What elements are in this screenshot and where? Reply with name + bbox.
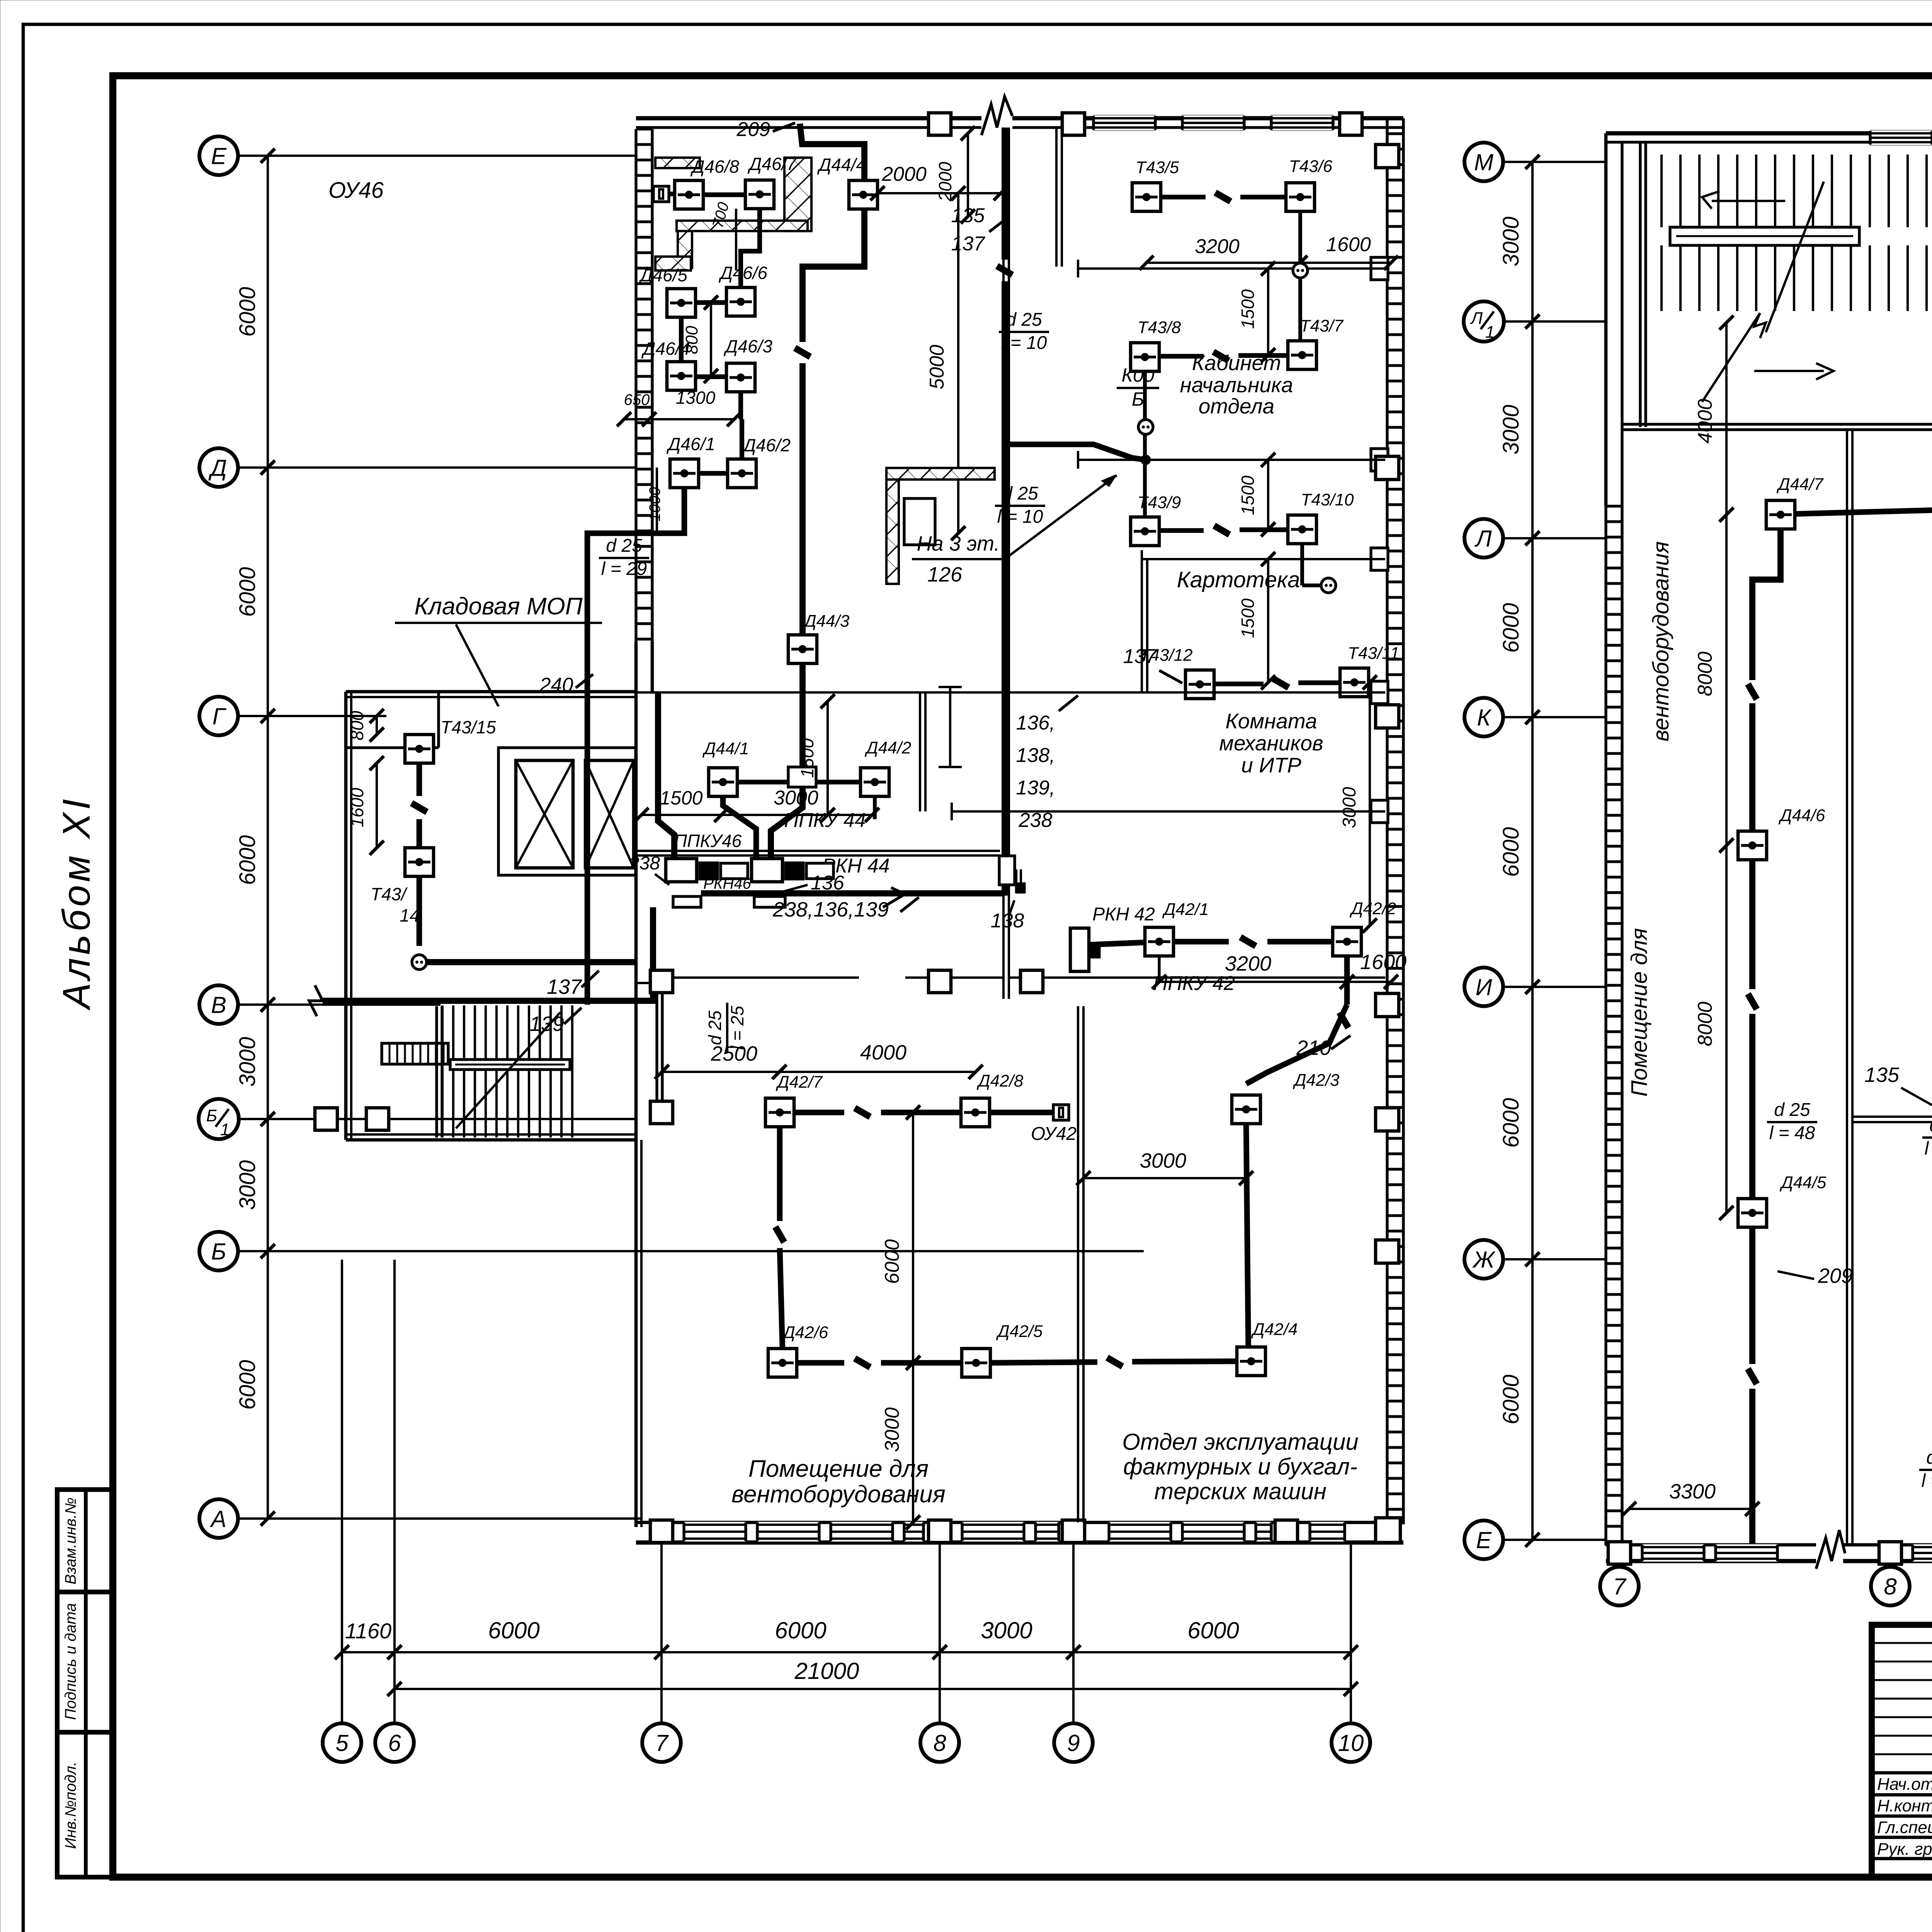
svg-text:Помещение для: Помещение для bbox=[1627, 928, 1652, 1097]
svg-text:3000: 3000 bbox=[235, 1160, 260, 1210]
wire Д46/5 down bbox=[679, 317, 684, 362]
svg-text:Д44/1: Д44/1 bbox=[702, 739, 749, 758]
svg-text:1600: 1600 bbox=[1360, 951, 1406, 974]
annex outer walls bbox=[346, 690, 636, 694]
left plan bottom wall windows bbox=[684, 1522, 746, 1542]
left plan bottom wall bbox=[636, 1521, 1403, 1524]
svg-text:Комната: Комната bbox=[1225, 709, 1317, 733]
dimension 1600 annex bbox=[370, 756, 384, 855]
svg-text:10: 10 bbox=[1338, 1730, 1364, 1756]
corridor wall vertical bbox=[1002, 128, 1005, 425]
svg-text:138: 138 bbox=[991, 910, 1024, 932]
detector Д42/3 bbox=[1232, 1095, 1260, 1124]
left plan grid line Б/1 bbox=[239, 1118, 638, 1120]
svg-text:6000: 6000 bbox=[1498, 1374, 1524, 1424]
left plan grid line Б bbox=[238, 1250, 1144, 1252]
detector Д42/5 bbox=[962, 1349, 990, 1377]
Картотека left wall bbox=[1141, 559, 1143, 692]
svg-text:3000: 3000 bbox=[981, 1617, 1032, 1643]
svg-text:137: 137 bbox=[547, 975, 582, 998]
svg-text:Д44/2: Д44/2 bbox=[864, 738, 912, 757]
detector Т43/10 bbox=[1288, 515, 1316, 544]
left plan grid line E bbox=[238, 155, 636, 157]
junction КОО Б bbox=[1117, 364, 1159, 410]
svg-text:фактурных и бухгал-: фактурных и бухгал- bbox=[1123, 1454, 1357, 1480]
left plan right wall columns bbox=[1376, 145, 1399, 168]
wire Д46/5 Д46/6 bbox=[696, 300, 726, 305]
svg-text:2000: 2000 bbox=[881, 163, 927, 185]
svg-text:Л: Л bbox=[1470, 309, 1483, 328]
svg-text:7: 7 bbox=[655, 1730, 669, 1756]
frac d25 l20 bbox=[1919, 1447, 1932, 1491]
svg-text:Д42/6: Д42/6 bbox=[781, 1323, 828, 1342]
svg-text:d 25: d 25 bbox=[1929, 1115, 1932, 1136]
dimension 4000 8000 8000 bbox=[1719, 316, 1734, 522]
wire Т43/8 down bbox=[1143, 371, 1147, 420]
svg-text:137: 137 bbox=[1123, 645, 1158, 668]
right plan left wall upper bbox=[1604, 133, 1608, 506]
dimension 3300 bbox=[1622, 1502, 1760, 1516]
svg-text:Л: Л bbox=[1474, 526, 1492, 552]
detector Т43/8 bbox=[1131, 343, 1159, 371]
right plan left window wall bbox=[1606, 506, 1622, 1546]
detector Д46/2 bbox=[728, 459, 756, 488]
svg-text:3000: 3000 bbox=[235, 1037, 260, 1087]
svg-text:6: 6 bbox=[388, 1730, 401, 1756]
left plan grid line Д bbox=[238, 466, 636, 469]
svg-text:Д46/5: Д46/5 bbox=[638, 265, 687, 285]
left plan top wall break bbox=[981, 97, 1012, 135]
svg-text:3000: 3000 bbox=[1339, 787, 1360, 828]
wire Д46/4 Д46/3 bbox=[696, 374, 726, 379]
svg-text:Ж: Ж bbox=[1472, 1247, 1495, 1273]
svg-text:1500: 1500 bbox=[1238, 289, 1258, 329]
svg-text:РКН 42: РКН 42 bbox=[1092, 904, 1155, 925]
svg-text:l = 29: l = 29 bbox=[601, 559, 647, 579]
svg-text:3000: 3000 bbox=[1498, 405, 1524, 454]
svg-text:и ИТР: и ИТР bbox=[1241, 753, 1301, 777]
svg-text:Альбом XI: Альбом XI bbox=[55, 796, 98, 1010]
detector Д42/6 bbox=[768, 1349, 797, 1377]
left plan grid line Г bbox=[238, 715, 386, 717]
svg-text:1300: 1300 bbox=[676, 388, 716, 408]
svg-text:РКН46: РКН46 bbox=[703, 875, 751, 892]
svg-text:6000: 6000 bbox=[775, 1617, 826, 1643]
wire Т43/5 Т43/6 bbox=[1161, 195, 1206, 199]
svg-text:209: 209 bbox=[736, 118, 770, 141]
detector Д44/3 bbox=[788, 635, 817, 663]
frac d25 l29 bbox=[599, 536, 649, 579]
svg-text:Взам.инв.№: Взам.инв.№ bbox=[62, 1497, 79, 1584]
dimension 1500 mech bbox=[1261, 552, 1276, 690]
detector Т43/12 bbox=[1185, 670, 1214, 699]
wire Т43/6 down telephone bbox=[1298, 211, 1302, 263]
left plan grid line В bbox=[238, 1003, 440, 1006]
svg-text:3000: 3000 bbox=[1140, 1149, 1186, 1172]
svg-text:l = 25: l = 25 bbox=[727, 1006, 747, 1050]
wire Д44/5 down bbox=[1749, 1227, 1755, 1364]
svg-text:5000: 5000 bbox=[926, 345, 948, 389]
svg-text:Д46/3: Д46/3 bbox=[723, 336, 772, 356]
svg-text:Кладовая МОП: Кладовая МОП bbox=[414, 593, 582, 620]
svg-text:6000: 6000 bbox=[488, 1617, 539, 1643]
svg-text:4000: 4000 bbox=[860, 1041, 906, 1064]
svg-text:Е: Е bbox=[211, 143, 227, 169]
left margin stamp table bbox=[57, 1490, 112, 1877]
left plan column bubbles bbox=[323, 1723, 361, 1762]
svg-text:d 25: d 25 bbox=[1002, 483, 1038, 504]
wire Д44/1 down bbox=[723, 796, 756, 859]
svg-text:На 3 эт.: На 3 эт. bbox=[917, 532, 1000, 555]
detector Т43/15 bbox=[405, 735, 434, 763]
wire Д44/2 stub bbox=[873, 796, 877, 819]
svg-text:вентоборудования: вентоборудования bbox=[1648, 541, 1673, 742]
partition механиков top bbox=[636, 691, 1385, 694]
svg-text:138,: 138, bbox=[1016, 744, 1055, 767]
right plan grid stub Ж bbox=[1503, 1258, 1606, 1260]
svg-text:Д42/8: Д42/8 bbox=[976, 1071, 1024, 1090]
svg-text:l = 10: l = 10 bbox=[1001, 333, 1047, 353]
elevator shafts bbox=[498, 748, 636, 875]
detector Д46/5 bbox=[667, 289, 696, 317]
wire Т43/8 Т43/7 bbox=[1159, 354, 1204, 359]
annex storeroom partition bbox=[437, 692, 440, 748]
detector Д42/8 bbox=[961, 1098, 990, 1127]
right plan bottom wall windows bbox=[1642, 1544, 1704, 1562]
svg-text:Д46/2: Д46/2 bbox=[742, 435, 791, 455]
dimension 2000 room bbox=[961, 126, 975, 224]
svg-text:Кабинет: Кабинет bbox=[1192, 351, 1281, 375]
svg-text:Д44/5: Д44/5 bbox=[1779, 1173, 1827, 1192]
partition Картотека bbox=[1142, 558, 1385, 560]
svg-text:Д46/8: Д46/8 bbox=[690, 156, 739, 177]
wire Д42/2 down bbox=[1344, 956, 1350, 1005]
detector Д44/6 bbox=[1738, 831, 1767, 860]
wire trunk 238 136 139 bbox=[323, 907, 653, 1001]
wire Д42/7 Д42/8 ОУ42 bbox=[794, 1110, 844, 1116]
svg-text:l = 48: l = 48 bbox=[1769, 1123, 1815, 1143]
svg-text:Помещение для: Помещение для bbox=[748, 1456, 929, 1482]
svg-text:Д42/3: Д42/3 bbox=[1293, 1071, 1340, 1090]
detector Д46/8 bbox=[675, 180, 703, 209]
stair to 3rd floor hatch bbox=[886, 468, 995, 480]
left plan right window wall bbox=[1387, 118, 1403, 1524]
svg-text:Инв.№подл.: Инв.№подл. bbox=[62, 1762, 79, 1849]
svg-text:Гл.спец.: Гл.спец. bbox=[1877, 1818, 1932, 1837]
telephone socket Картотека bbox=[1321, 578, 1336, 593]
svg-text:6000: 6000 bbox=[235, 1360, 260, 1410]
stairwell left wall bbox=[435, 1006, 438, 1138]
detector Д42/7 bbox=[765, 1098, 794, 1127]
svg-text:Д46/1: Д46/1 bbox=[666, 434, 715, 454]
dimension 5000 bbox=[951, 186, 966, 541]
annex grate bbox=[382, 1043, 448, 1064]
svg-text:Т43/15: Т43/15 bbox=[440, 717, 496, 737]
right plan grid stub Л/1 bbox=[1503, 320, 1606, 323]
svg-text:6000: 6000 bbox=[1498, 1098, 1524, 1148]
wire pair 136 to riser bbox=[636, 850, 1000, 852]
svg-text:Т43/9: Т43/9 bbox=[1138, 493, 1181, 512]
detector Т43/14 bbox=[405, 848, 434, 876]
wire Д42/6 Д42/5 Д42/4 bbox=[797, 1360, 844, 1366]
svg-text:Г: Г bbox=[213, 704, 227, 730]
svg-text:6000: 6000 bbox=[881, 1239, 903, 1284]
grid bubble М right plan bbox=[1464, 143, 1503, 181]
svg-text:терских машин: терских машин bbox=[1154, 1478, 1327, 1504]
grid bubble Е right plan bbox=[1464, 1520, 1503, 1559]
detector Т43/5 bbox=[1132, 183, 1161, 211]
svg-text:ППКУ46: ППКУ46 bbox=[674, 831, 742, 851]
svg-text:Б: Б bbox=[1132, 388, 1145, 410]
svg-text:И: И bbox=[1476, 975, 1492, 1000]
svg-text:126: 126 bbox=[927, 563, 963, 586]
detector Д42/1 bbox=[1145, 927, 1173, 956]
detector Д46/6 bbox=[726, 287, 755, 316]
grid bubble И right plan bbox=[1464, 968, 1503, 1006]
svg-text:3300: 3300 bbox=[1669, 1480, 1716, 1503]
right plan bottom wall columns bbox=[1608, 1542, 1631, 1564]
svg-text:8000: 8000 bbox=[1694, 1002, 1716, 1046]
svg-text:3000: 3000 bbox=[774, 787, 818, 809]
svg-text:136,: 136, bbox=[1016, 712, 1055, 734]
svg-text:800: 800 bbox=[347, 711, 367, 740]
wire Д46 top row bbox=[669, 192, 675, 196]
dimension 3200 1600 room1 bbox=[1139, 256, 1308, 270]
svg-text:8: 8 bbox=[1884, 1574, 1897, 1600]
svg-text:Д42/4: Д42/4 bbox=[1251, 1320, 1298, 1339]
svg-text:вентоборудования: вентоборудования bbox=[731, 1481, 946, 1508]
svg-text:d 25: d 25 bbox=[1926, 1447, 1932, 1468]
detector Д44/1 bbox=[709, 768, 737, 796]
hall divider wall bbox=[1077, 1006, 1079, 1522]
dimension 3200 1600 d42 bbox=[1152, 975, 1354, 989]
svg-text:Нач.отд.: Нач.отд. bbox=[1877, 1775, 1932, 1794]
grid bubble Л right plan bbox=[1464, 519, 1503, 558]
detector Т43/7 bbox=[1288, 341, 1316, 369]
upper hall partition vertical bbox=[919, 692, 921, 811]
svg-text:Д: Д bbox=[208, 455, 227, 481]
svg-text:Т43/6: Т43/6 bbox=[1289, 157, 1333, 176]
column at 7/Б1 bbox=[650, 1101, 673, 1124]
corridor wall right plan bbox=[1846, 430, 1848, 1545]
right plan grid stub Л bbox=[1503, 537, 1606, 539]
wire Д46/6 to Д46/7 bbox=[741, 209, 760, 287]
svg-text:1500: 1500 bbox=[1238, 475, 1258, 515]
svg-text:6000: 6000 bbox=[235, 835, 260, 885]
left plan column stems bbox=[341, 1260, 343, 1723]
wire Д44/1 Д44/2 bbox=[737, 780, 788, 784]
hatched wall top-left bbox=[655, 158, 700, 168]
wire Д46/1 down to trunk bbox=[587, 488, 684, 1005]
grid bubble А left plan bbox=[199, 1499, 238, 1538]
frac d25 l10 lower bbox=[995, 483, 1045, 527]
svg-text:Картотека: Картотека bbox=[1177, 567, 1300, 592]
svg-text:5: 5 bbox=[335, 1730, 349, 1756]
device ППКУ44 box bbox=[788, 767, 816, 787]
wire Д44/3 down bbox=[771, 663, 803, 859]
svg-text:4000: 4000 bbox=[1694, 399, 1716, 444]
svg-text:Д44/7: Д44/7 bbox=[1776, 475, 1824, 494]
svg-text:d 25: d 25 bbox=[1774, 1100, 1810, 1120]
socket ОУ46 bbox=[653, 186, 669, 202]
detector Д46/7 bbox=[745, 180, 774, 209]
wire Д42/7 down bbox=[777, 1127, 783, 1221]
svg-text:отдела: отдела bbox=[1199, 394, 1275, 418]
svg-text:21000: 21000 bbox=[794, 1658, 859, 1684]
svg-text:начальника: начальника bbox=[1180, 373, 1293, 397]
svg-text:Н.контр.: Н.контр. bbox=[1877, 1796, 1932, 1815]
svg-text:209: 209 bbox=[1818, 1264, 1853, 1287]
left plan left wall lower bbox=[634, 641, 638, 1140]
dimension 1500 room1 bbox=[1261, 262, 1276, 362]
svg-text:механиков: механиков bbox=[1219, 731, 1323, 755]
svg-text:Т43/5: Т43/5 bbox=[1136, 158, 1179, 177]
room wall vertical top bbox=[1055, 128, 1058, 267]
svg-text:238,136,139: 238,136,139 bbox=[772, 898, 889, 921]
right plan grid stub К bbox=[1503, 716, 1606, 718]
wire ППКУ42 Д42/1 Д42/2 bbox=[1089, 942, 1145, 945]
svg-text:1600: 1600 bbox=[347, 787, 367, 827]
frac d25 l48 bbox=[1767, 1100, 1817, 1143]
dimension 1500 vertical hall bbox=[821, 694, 835, 822]
svg-text:М: М bbox=[1474, 150, 1493, 175]
wire Д46/3 down bbox=[738, 392, 743, 419]
device ППКУ42 bbox=[1070, 928, 1089, 971]
detector Д44/4 bbox=[849, 180, 878, 209]
grid bubble Ж right plan bbox=[1464, 1240, 1503, 1279]
svg-text:1500: 1500 bbox=[660, 787, 702, 809]
svg-text:9: 9 bbox=[1067, 1730, 1080, 1756]
stairwell right wall bbox=[655, 981, 658, 1117]
svg-text:d 25: d 25 bbox=[606, 536, 642, 556]
left plan bottom wall columns bbox=[650, 1520, 673, 1543]
dimension 3000 hall bbox=[1077, 1171, 1253, 1185]
dimension 800 cluster bbox=[704, 296, 718, 383]
svg-text:Д46/7: Д46/7 bbox=[747, 154, 797, 174]
svg-text:Т43/7: Т43/7 bbox=[1300, 316, 1344, 335]
svg-text:Т43/: Т43/ bbox=[371, 884, 408, 904]
svg-text:Д44/6: Д44/6 bbox=[1778, 806, 1825, 825]
left plan lower-left wall bbox=[634, 1140, 638, 1527]
svg-text:Т43/10: Т43/10 bbox=[1301, 490, 1354, 509]
left plan overall dimension 21000 bbox=[388, 1682, 1358, 1696]
svg-text:137: 137 bbox=[951, 233, 986, 255]
right plan column stems bbox=[1618, 1561, 1621, 1567]
partition stub upper hall bbox=[949, 687, 951, 767]
svg-text:l = 20: l = 20 bbox=[1922, 1471, 1932, 1491]
right plan top wall windows bbox=[1870, 130, 1932, 145]
row В corridor wall bbox=[674, 976, 859, 979]
svg-text:l = 50: l = 50 bbox=[1925, 1138, 1932, 1159]
wire into ППКУ46 assembly bbox=[658, 694, 674, 859]
svg-text:1: 1 bbox=[220, 1120, 230, 1139]
svg-text:7: 7 bbox=[1613, 1574, 1627, 1600]
svg-text:135: 135 bbox=[1864, 1063, 1900, 1087]
grid bubble В left plan bbox=[199, 985, 238, 1024]
right plan column bubbles bbox=[1600, 1567, 1639, 1605]
detector Д46/3 bbox=[726, 363, 755, 392]
dimension 3000 right bbox=[1363, 675, 1377, 933]
partition room2 bbox=[1078, 459, 1385, 461]
svg-text:1160: 1160 bbox=[345, 1619, 391, 1643]
svg-text:3200: 3200 bbox=[1225, 952, 1271, 975]
svg-text:6000: 6000 bbox=[1498, 827, 1524, 877]
svg-text:Б: Б bbox=[211, 1239, 226, 1265]
svg-text:Рук. гр.: Рук. гр. bbox=[1877, 1840, 1932, 1859]
dimension 800 annex bbox=[370, 709, 384, 742]
grid bubble К right plan bbox=[1464, 698, 1503, 736]
right plan grid stub Е bbox=[1503, 1539, 1606, 1541]
svg-text:Д44/4: Д44/4 bbox=[817, 155, 866, 175]
detector Д46/1 bbox=[670, 459, 699, 488]
frac d25 l10 upper bbox=[999, 310, 1049, 353]
svg-text:1500: 1500 bbox=[797, 738, 817, 778]
svg-text:Д42/2: Д42/2 bbox=[1349, 899, 1396, 918]
trunk wire 209 down bbox=[800, 124, 864, 180]
svg-text:В: В bbox=[211, 992, 226, 1018]
svg-text:650: 650 bbox=[624, 391, 650, 408]
socket ОУ42 bbox=[1053, 1105, 1069, 1120]
wire Д44/7 down bbox=[1752, 529, 1781, 680]
row В columns bbox=[650, 970, 673, 993]
svg-text:3000: 3000 bbox=[1498, 216, 1524, 266]
dimension 2500 4000 bbox=[655, 1065, 787, 1079]
riser 135 137 bbox=[1002, 128, 1008, 260]
dimension 1500 room2 bbox=[1261, 453, 1276, 537]
wire Д44/6 down bbox=[1749, 860, 1755, 989]
svg-text:ОУ42: ОУ42 bbox=[1031, 1124, 1077, 1144]
svg-text:6000: 6000 bbox=[235, 567, 260, 617]
frac d25 l25 bbox=[705, 1003, 747, 1053]
left plan bottom dimension line bbox=[335, 1645, 402, 1660]
wire Д42/3 down bbox=[1246, 1124, 1248, 1361]
columns on row Б/1 bbox=[315, 1108, 337, 1130]
svg-text:Е: Е bbox=[1476, 1527, 1492, 1553]
svg-text:3000: 3000 bbox=[881, 1407, 903, 1452]
detector Д44/2 bbox=[861, 768, 889, 796]
grid bubble Е left plan bbox=[199, 136, 238, 175]
annex detector riser bbox=[417, 763, 422, 796]
left plan top wall columns bbox=[929, 113, 951, 135]
svg-text:3200: 3200 bbox=[1195, 235, 1240, 258]
dimension 2000 top bbox=[871, 186, 1008, 201]
svg-text:2000: 2000 bbox=[935, 162, 955, 202]
right plan top wall bbox=[1606, 131, 1932, 136]
title block frame bbox=[1872, 1625, 1932, 1877]
svg-text:Т43/8: Т43/8 bbox=[1138, 318, 1181, 337]
wire Т43/12 Т43/11 bbox=[1214, 682, 1264, 686]
svg-text:8000: 8000 bbox=[1694, 651, 1716, 696]
partition below T43/5 room bbox=[1078, 267, 1385, 270]
dimension 1500 3000 hall bbox=[634, 808, 729, 822]
right plan bottom wall break bbox=[1816, 1530, 1845, 1569]
wire Т43/9 Т43/10 bbox=[1159, 528, 1204, 533]
svg-text:Д44/3: Д44/3 bbox=[803, 612, 850, 631]
dimension 650 1300 bbox=[617, 412, 656, 427]
svg-text:Б: Б bbox=[206, 1106, 218, 1125]
svg-text:ППКУ 44: ППКУ 44 bbox=[784, 809, 866, 832]
svg-text:139,: 139, bbox=[1016, 777, 1055, 799]
wire 137 annex to assembly bbox=[427, 959, 636, 965]
detector Д46/4 bbox=[667, 362, 696, 390]
grid bubble Л/1 right plan bbox=[1464, 301, 1504, 342]
svg-text:ОУ46: ОУ46 bbox=[328, 178, 384, 203]
right plan stairwell bbox=[1662, 155, 1927, 402]
left plan right wall partition junction boxes bbox=[1371, 257, 1388, 280]
svg-text:Т43/11: Т43/11 bbox=[1348, 644, 1400, 663]
partition механиков bottom bbox=[952, 810, 1385, 813]
svg-text:139: 139 bbox=[529, 1012, 564, 1036]
